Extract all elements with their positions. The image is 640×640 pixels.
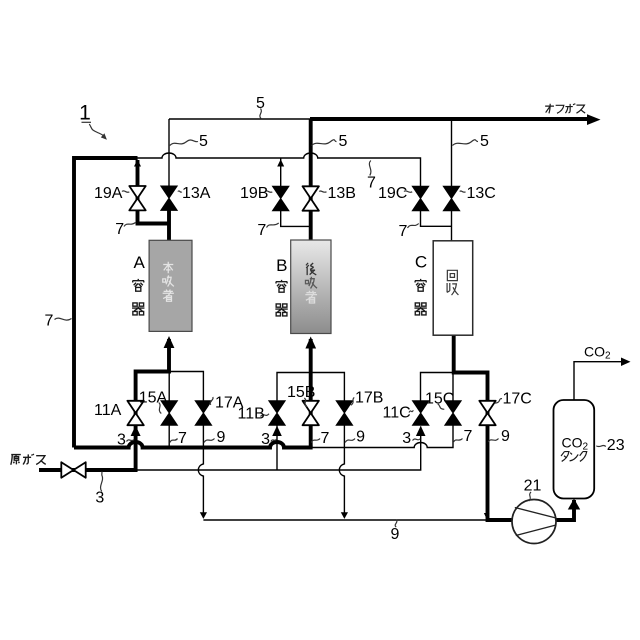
svg-text:B: B bbox=[276, 256, 287, 275]
svg-text:17B: 17B bbox=[355, 390, 383, 407]
svg-text:15B: 15B bbox=[287, 384, 315, 401]
svg-text:11A: 11A bbox=[94, 402, 122, 419]
svg-text:A: A bbox=[134, 253, 146, 272]
svg-text:9: 9 bbox=[391, 526, 400, 543]
svg-text:7: 7 bbox=[399, 223, 408, 240]
svg-text:5: 5 bbox=[339, 133, 348, 150]
svg-text:7: 7 bbox=[464, 428, 473, 445]
svg-text:13A: 13A bbox=[182, 185, 211, 202]
svg-text:9: 9 bbox=[217, 429, 226, 446]
svg-text:3: 3 bbox=[95, 490, 104, 507]
svg-text:19C: 19C bbox=[378, 185, 407, 202]
svg-text:21: 21 bbox=[524, 477, 542, 494]
svg-text:5: 5 bbox=[480, 133, 489, 150]
svg-text:15A: 15A bbox=[139, 390, 168, 407]
svg-text:9: 9 bbox=[356, 429, 365, 446]
svg-text:19A: 19A bbox=[94, 185, 123, 202]
svg-text:13B: 13B bbox=[328, 185, 356, 202]
svg-text:7: 7 bbox=[178, 430, 187, 447]
svg-text:17C: 17C bbox=[503, 391, 532, 408]
svg-text:9: 9 bbox=[501, 428, 510, 445]
svg-text:5: 5 bbox=[199, 133, 208, 150]
svg-text:CO2: CO2 bbox=[584, 344, 611, 362]
svg-text:7: 7 bbox=[321, 430, 330, 447]
svg-text:3: 3 bbox=[117, 432, 126, 449]
svg-text:5: 5 bbox=[256, 95, 265, 112]
svg-text:15C: 15C bbox=[425, 391, 454, 408]
svg-text:7: 7 bbox=[44, 312, 53, 329]
svg-text:19B: 19B bbox=[240, 185, 268, 202]
svg-text:23: 23 bbox=[607, 437, 625, 454]
svg-text:C: C bbox=[415, 253, 427, 272]
svg-text:7: 7 bbox=[115, 221, 124, 238]
svg-text:13C: 13C bbox=[467, 185, 496, 202]
svg-text:1: 1 bbox=[79, 102, 91, 125]
svg-text:3: 3 bbox=[261, 431, 270, 448]
svg-text:3: 3 bbox=[402, 430, 411, 447]
svg-text:7: 7 bbox=[367, 174, 376, 191]
svg-text:11B: 11B bbox=[238, 405, 265, 422]
svg-text:7: 7 bbox=[257, 222, 266, 239]
svg-text:11C: 11C bbox=[383, 405, 411, 422]
